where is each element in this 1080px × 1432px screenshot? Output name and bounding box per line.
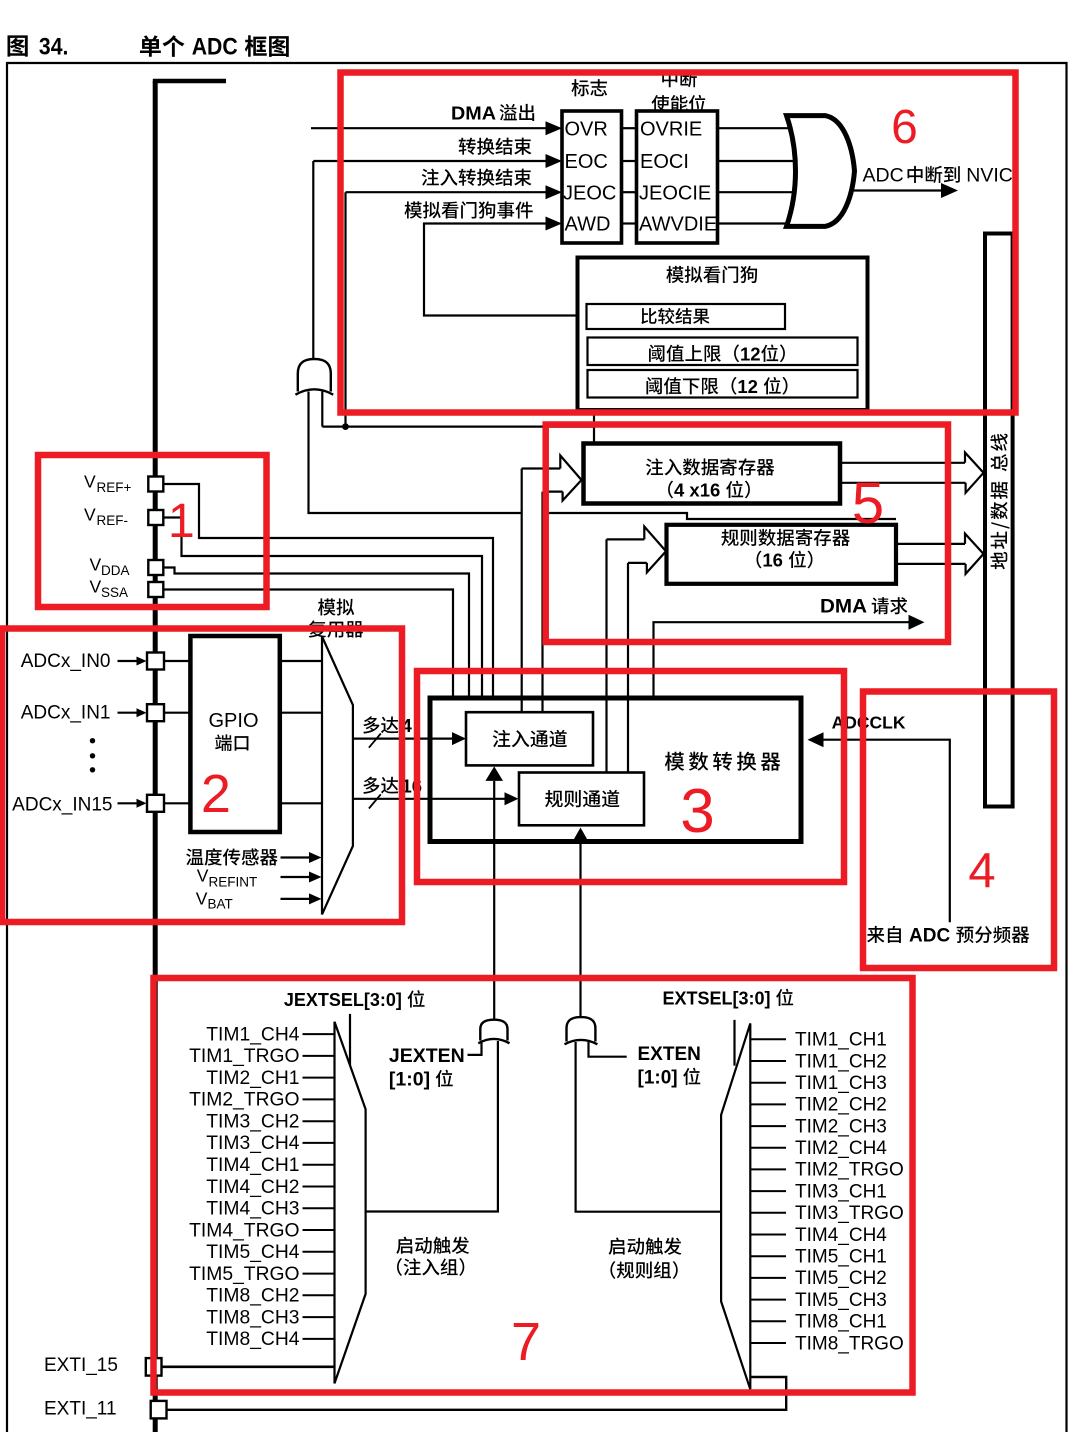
TIM input stubs (left mux) [303, 1033, 335, 1035]
svg-text:REFINT: REFINT [209, 875, 258, 890]
svg-text:TIM4_CH1: TIM4_CH1 [206, 1155, 299, 1176]
wire V1: injected channels to injected data register [521, 469, 523, 712]
analog watchdog labels [666, 266, 684, 283]
EXTSEL select stub [733, 1020, 735, 1066]
svg-text:12: 12 [737, 376, 758, 397]
notched open arrow into regular data register [607, 538, 645, 540]
red annotation box 4 [863, 692, 1054, 969]
analog to digital converter box [430, 698, 801, 842]
svg-text:AWVDIE: AWVDIE [639, 214, 717, 236]
wire V2: injected channels to injected data register (2nd) [541, 492, 543, 712]
svg-text:EXTI_15: EXTI_15 [44, 1355, 118, 1376]
svg-text:EXTI_11: EXTI_11 [44, 1399, 117, 1420]
svg-text:AWD: AWD [565, 214, 611, 236]
svg-text:DMA: DMA [451, 103, 496, 124]
svg-text:NVIC: NVIC [966, 165, 1013, 187]
up to 4 / up to 16 labels [363, 716, 379, 733]
JEXTSEL mux trapezoid [335, 1022, 366, 1384]
red annotation box 5 [546, 425, 948, 643]
regular data register labels [721, 529, 738, 546]
svg-text:REF+: REF+ [97, 480, 132, 495]
regular data register box [667, 525, 897, 584]
svg-text:TIM5_TRGO: TIM5_TRGO [189, 1264, 299, 1285]
svg-text:V: V [196, 889, 208, 909]
wires: flag boxes to interrupt-enable boxes [622, 127, 637, 129]
svg-text:TIM4_CH3: TIM4_CH3 [206, 1199, 299, 1220]
svg-text:TIM3_CH1: TIM3_CH1 [795, 1181, 887, 1202]
svg-text:12: 12 [740, 343, 761, 364]
junction dot JEOC/watchdog [342, 423, 349, 430]
OR gate for regular trigger (EXTEN) [567, 1017, 596, 1041]
svg-text:EXTSEL[3:0]: EXTSEL[3:0] [663, 989, 771, 1009]
svg-text:TIM5_CH4: TIM5_CH4 [206, 1242, 299, 1263]
notched bus arrow: injected data register to address/data bus [840, 462, 965, 464]
svg-text:[1:0]: [1:0] [638, 1068, 678, 1089]
svg-text:2: 2 [201, 764, 231, 824]
start trigger labels [396, 1237, 412, 1254]
svg-text:ADCx_IN1: ADCx_IN1 [21, 703, 111, 724]
red annotation box 6 [341, 73, 1016, 413]
svg-text:TIM8_CH2: TIM8_CH2 [206, 1286, 299, 1307]
EXTI_15 pin square [146, 1358, 162, 1376]
svg-text:TIM5_CH1: TIM5_CH1 [795, 1247, 887, 1268]
svg-text:TIM2_TRGO: TIM2_TRGO [189, 1090, 299, 1111]
svg-text:TIM2_CH2: TIM2_CH2 [795, 1095, 887, 1116]
injected data registers box [584, 444, 841, 504]
EXTI_15 wire [162, 1366, 335, 1369]
wires V3,V4: regular channels up to regular data register [605, 539, 607, 772]
wire VREF- [164, 518, 483, 698]
wire: injected trigger (JEXTEN gate up to injected channels) [493, 781, 495, 1021]
svg-text:JEXTEN: JEXTEN [389, 1045, 465, 1067]
EXTEN stub [589, 1042, 627, 1057]
wire: OR gate output to NVIC [851, 189, 943, 191]
svg-text:BAT: BAT [208, 897, 233, 912]
TIM input stubs (right mux) [750, 1038, 786, 1040]
EXTSEL mux trapezoid [721, 1023, 750, 1389]
svg-text:JEOC: JEOC [563, 182, 616, 204]
injected channels box [466, 712, 593, 765]
svg-text:TIM2_CH1: TIM2_CH1 [206, 1068, 299, 1089]
EXTI_11 pin square [151, 1401, 167, 1419]
wires: enable boxes to OR gate [718, 127, 794, 129]
svg-text:TIM2_CH4: TIM2_CH4 [795, 1138, 887, 1159]
svg-text:OVRIE: OVRIE [640, 118, 702, 140]
wire: ADCCLK from prescaler [823, 740, 950, 923]
title [7, 35, 27, 56]
svg-text:3: 3 [680, 777, 714, 846]
address/data bus bar [985, 234, 1013, 807]
wire: up to 16 (mux to regular channels) [353, 798, 506, 800]
svg-text:GPIO: GPIO [208, 710, 258, 732]
temp sensor labels [186, 849, 203, 866]
wire: watchdog output to small OR gate input B [593, 410, 595, 444]
svg-text:ADC: ADC [863, 165, 904, 187]
ADCx input label arrows [118, 660, 139, 662]
svg-text:TIM1_CH2: TIM1_CH2 [795, 1051, 887, 1072]
injected data register labels [646, 458, 663, 475]
labels top [571, 79, 588, 96]
svg-text:DDA: DDA [101, 563, 130, 578]
converter box labels [493, 730, 511, 747]
svg-text:6: 6 [891, 101, 918, 154]
wire: up to 4 (mux to injected channels) [353, 737, 453, 739]
wire: JEXTSEL mux output to JEXTEN gate [366, 1041, 498, 1212]
svg-text:TIM2_TRGO: TIM2_TRGO [795, 1160, 904, 1181]
lower threshold box [588, 370, 858, 398]
big OR gate: ADC interrupt to NVIC [787, 116, 855, 227]
svg-text:ADC: ADC [909, 926, 950, 947]
upper threshold box [588, 338, 858, 366]
wire: JEOC vertical [344, 192, 346, 426]
svg-text:V: V [90, 577, 102, 597]
wire: DMA request [654, 622, 910, 697]
svg-text:JEXTSEL[3:0]: JEXTSEL[3:0] [284, 990, 402, 1010]
svg-text:REF-: REF- [97, 513, 129, 528]
wires: temp sensor / VREFINT / VBAT to mux [281, 856, 311, 858]
wire: end of conversion to EOC [313, 160, 548, 162]
svg-text:TIM8_CH1: TIM8_CH1 [795, 1312, 887, 1333]
wire: regular trigger (EXTEN gate up to regular channels) [579, 842, 581, 1018]
wire: analog watchdog event to AWD [424, 224, 587, 316]
JEXTEN stub [468, 1041, 482, 1055]
vertical dots [90, 738, 95, 743]
svg-text:ADCx_IN0: ADCx_IN0 [21, 651, 111, 672]
notched open arrow into injected data register [522, 467, 561, 469]
svg-text:TIM1_CH3: TIM1_CH3 [795, 1073, 887, 1094]
NVIC output arrowhead [941, 183, 958, 198]
svg-text:4: 4 [968, 844, 995, 898]
svg-text:TIM5_CH2: TIM5_CH2 [795, 1268, 887, 1289]
wire W2: tap to regular data register top [543, 513, 897, 519]
svg-text:OVR: OVR [565, 118, 608, 140]
analog mux label [318, 598, 336, 615]
JEXTSEL select stub [349, 1014, 351, 1068]
svg-text:TIM8_TRGO: TIM8_TRGO [795, 1333, 904, 1354]
compare result box [587, 304, 786, 329]
svg-text:TIM4_TRGO: TIM4_TRGO [189, 1220, 299, 1241]
svg-text:7: 7 [511, 1312, 541, 1372]
svg-text:V: V [84, 505, 96, 525]
svg-text:V: V [90, 555, 102, 575]
svg-text:34.: 34. [39, 34, 69, 61]
analog watchdog box [578, 258, 868, 411]
wire: EOC vertical to small OR gate [312, 161, 314, 360]
svg-text:TIM1_CH1: TIM1_CH1 [795, 1030, 887, 1051]
svg-text:EOCI: EOCI [640, 151, 689, 173]
wire VDDA [164, 568, 470, 698]
wire VREF+ [164, 484, 494, 697]
svg-text:ADC: ADC [192, 34, 238, 61]
regular channels box [519, 773, 644, 826]
wire: DMA overflow to OVR [311, 127, 548, 129]
svg-text:TIM4_CH4: TIM4_CH4 [795, 1225, 887, 1246]
wires: GPIO to analog mux [279, 660, 322, 662]
interrupt enable box (OVRIE/...) [637, 111, 718, 243]
svg-text:TIM8_CH3: TIM8_CH3 [206, 1307, 299, 1328]
svg-text:TIM3_CH4: TIM3_CH4 [206, 1133, 299, 1154]
svg-text:5: 5 [852, 471, 884, 536]
svg-text:EOC: EOC [565, 151, 608, 173]
notched bus arrow: regular data register to address/data bus [896, 543, 965, 545]
svg-text:1: 1 [168, 495, 195, 548]
wire: end of injected conversion to JEOC [346, 191, 549, 193]
svg-text:V: V [197, 866, 209, 886]
pin squares on supply bus [148, 477, 163, 492]
svg-text:TIM3_TRGO: TIM3_TRGO [795, 1203, 904, 1224]
svg-text:TIM3_CH2: TIM3_CH2 [206, 1112, 299, 1133]
svg-text:V: V [84, 472, 96, 492]
svg-text:TIM2_CH3: TIM2_CH3 [795, 1116, 887, 1137]
red annotation box 7 [154, 978, 913, 1393]
GPIO port box [190, 636, 279, 832]
red annotation box 3 [417, 671, 844, 882]
svg-text:[1:0]: [1:0] [389, 1069, 430, 1091]
flag input arrowheads [546, 121, 563, 135]
address/data bus label (rotated) [990, 434, 1009, 570]
svg-text:TIM8_CH4: TIM8_CH4 [206, 1329, 299, 1350]
small OR gate (EOC combiner) [298, 359, 331, 392]
svg-text:16: 16 [762, 550, 783, 571]
svg-text:SSA: SSA [101, 585, 128, 600]
svg-text:TIM5_CH3: TIM5_CH3 [795, 1290, 887, 1311]
wire: small OR gate input A down and right to injected data line [309, 391, 522, 513]
svg-text:EXTEN: EXTEN [638, 1044, 701, 1065]
wires: pins to GPIO [164, 660, 191, 662]
status flags box (OVR/EOC/JEOC/AWD) [562, 111, 622, 243]
OR gate for injected trigger (JEXTEN) [480, 1020, 507, 1041]
svg-text:4 x16: 4 x16 [674, 480, 720, 501]
svg-text:TIM1_CH4: TIM1_CH4 [206, 1024, 299, 1045]
svg-text:DMA: DMA [820, 596, 867, 618]
from ADC prescaler label [867, 926, 884, 943]
red annotation box 1 [38, 455, 267, 607]
svg-text:TIM4_CH2: TIM4_CH2 [206, 1177, 299, 1198]
wire VSSA [164, 590, 454, 698]
red annotation box 2 [2, 629, 402, 923]
svg-text:TIM1_TRGO: TIM1_TRGO [189, 1046, 299, 1067]
wire: EXTSEL mux output to EXTEN gate [576, 1042, 722, 1212]
power/analog supply bus (thick vertical line) [153, 81, 158, 1432]
svg-text:JEOCIE: JEOCIE [639, 182, 711, 204]
svg-text:ADCx_IN15: ADCx_IN15 [12, 795, 112, 816]
analog mux trapezoid [322, 637, 353, 915]
EXTI_11 wire to EXTSEL mux [167, 1377, 787, 1410]
